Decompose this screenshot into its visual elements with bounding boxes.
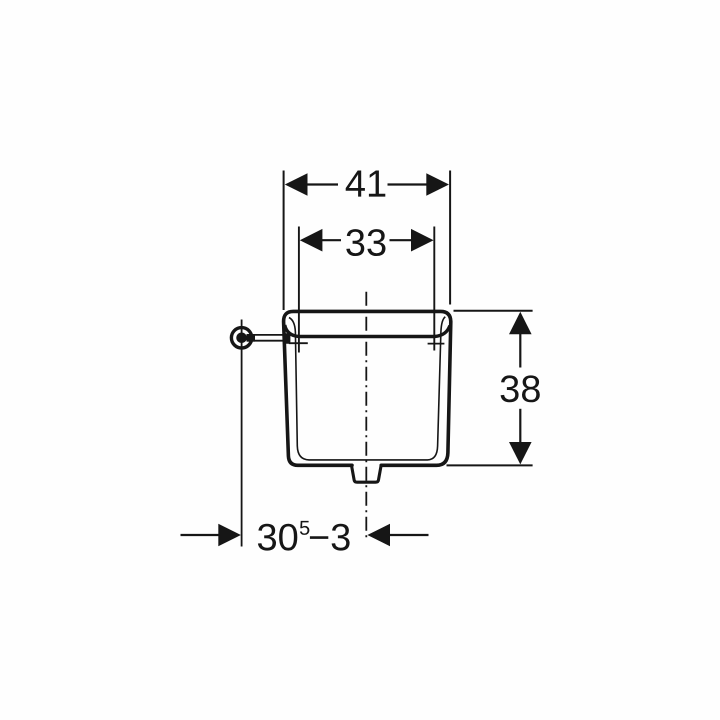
rod entry blob at tank wall <box>283 333 290 344</box>
dimension 38 label <box>501 375 540 402</box>
dimension 41 line left shaft <box>307 183 339 185</box>
dimension 33 left tick <box>289 342 308 344</box>
dimension 30(5)-3 left arrowhead <box>218 524 241 547</box>
dimension 41 left arrowhead <box>285 173 308 196</box>
dimension 38 line upper shaft <box>519 333 521 368</box>
flush valve rod <box>247 335 289 341</box>
dimension 33 left arrowhead <box>300 229 323 252</box>
dimension 38 top extension line <box>454 310 533 312</box>
flush valve ring <box>231 328 251 348</box>
dimension 33 label <box>346 229 385 256</box>
cistern outline <box>284 311 451 465</box>
flush valve dot <box>236 333 247 344</box>
dimension 38 bottom extension line <box>447 464 533 466</box>
dimension 33 right arrowhead <box>411 229 434 252</box>
dimension 41 line right shaft <box>388 183 428 185</box>
flush outlet at bottom <box>352 466 381 482</box>
dimension 30(5)-3 left shaft <box>181 534 220 536</box>
dimension 33 left extension line <box>298 227 300 353</box>
dimension 41 right arrowhead <box>426 173 449 196</box>
dimension 41 right extension line <box>449 171 451 305</box>
dimension 38 bottom arrowhead <box>509 442 532 464</box>
dimension 33 right extension line <box>433 227 435 351</box>
dimension 30(5)-3 right shaft <box>390 534 429 536</box>
inner wall thin line <box>289 317 445 460</box>
rod joint at valve <box>247 334 256 342</box>
dimension 33 right tick <box>428 343 445 345</box>
dimension 38 line lower shaft <box>519 409 521 443</box>
dimension 33 line right shaft <box>390 239 412 241</box>
dimension 41 left extension line <box>283 171 285 311</box>
dimension 30(5)-3 label <box>258 521 350 551</box>
center line (vertical chain line) <box>365 290 367 540</box>
dimension 33 line left shaft <box>322 239 342 241</box>
dimension 38 top arrowhead <box>509 312 532 334</box>
dimension 41 label <box>346 171 386 197</box>
supply line (vertical line through flush valve) <box>241 320 243 547</box>
cistern lid bottom edge <box>285 325 450 337</box>
dimension 30(5)-3 right arrowhead <box>367 524 390 547</box>
